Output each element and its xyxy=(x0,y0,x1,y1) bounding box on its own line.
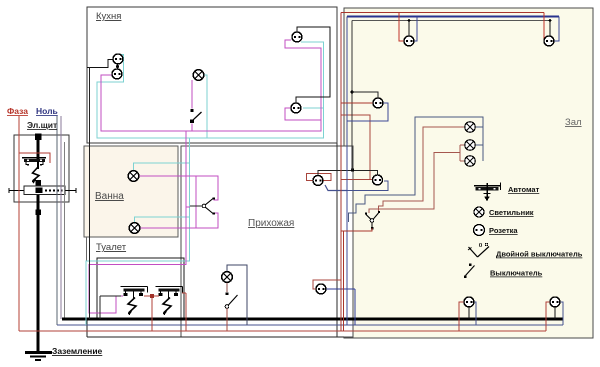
svg-text:Розетка: Розетка xyxy=(489,226,518,235)
svg-text:Зал: Зал xyxy=(565,117,582,128)
svg-text:Кухня: Кухня xyxy=(96,11,121,22)
svg-text:Выключатель: Выключатель xyxy=(490,269,543,278)
svg-text:Светильник: Светильник xyxy=(489,208,534,217)
svg-text:Ноль: Ноль xyxy=(36,106,58,116)
svg-text:Туалет: Туалет xyxy=(96,242,127,253)
svg-text:Автомат: Автомат xyxy=(508,185,540,194)
svg-text:Эл.щит: Эл.щит xyxy=(27,120,57,130)
svg-text:Фаза: Фаза xyxy=(7,106,28,116)
svg-text:Заземление: Заземление xyxy=(52,346,103,356)
svg-text:Двойной выключатель: Двойной выключатель xyxy=(496,250,583,259)
svg-text:Прихожая: Прихожая xyxy=(248,218,294,229)
svg-text:Ванна: Ванна xyxy=(95,191,124,202)
